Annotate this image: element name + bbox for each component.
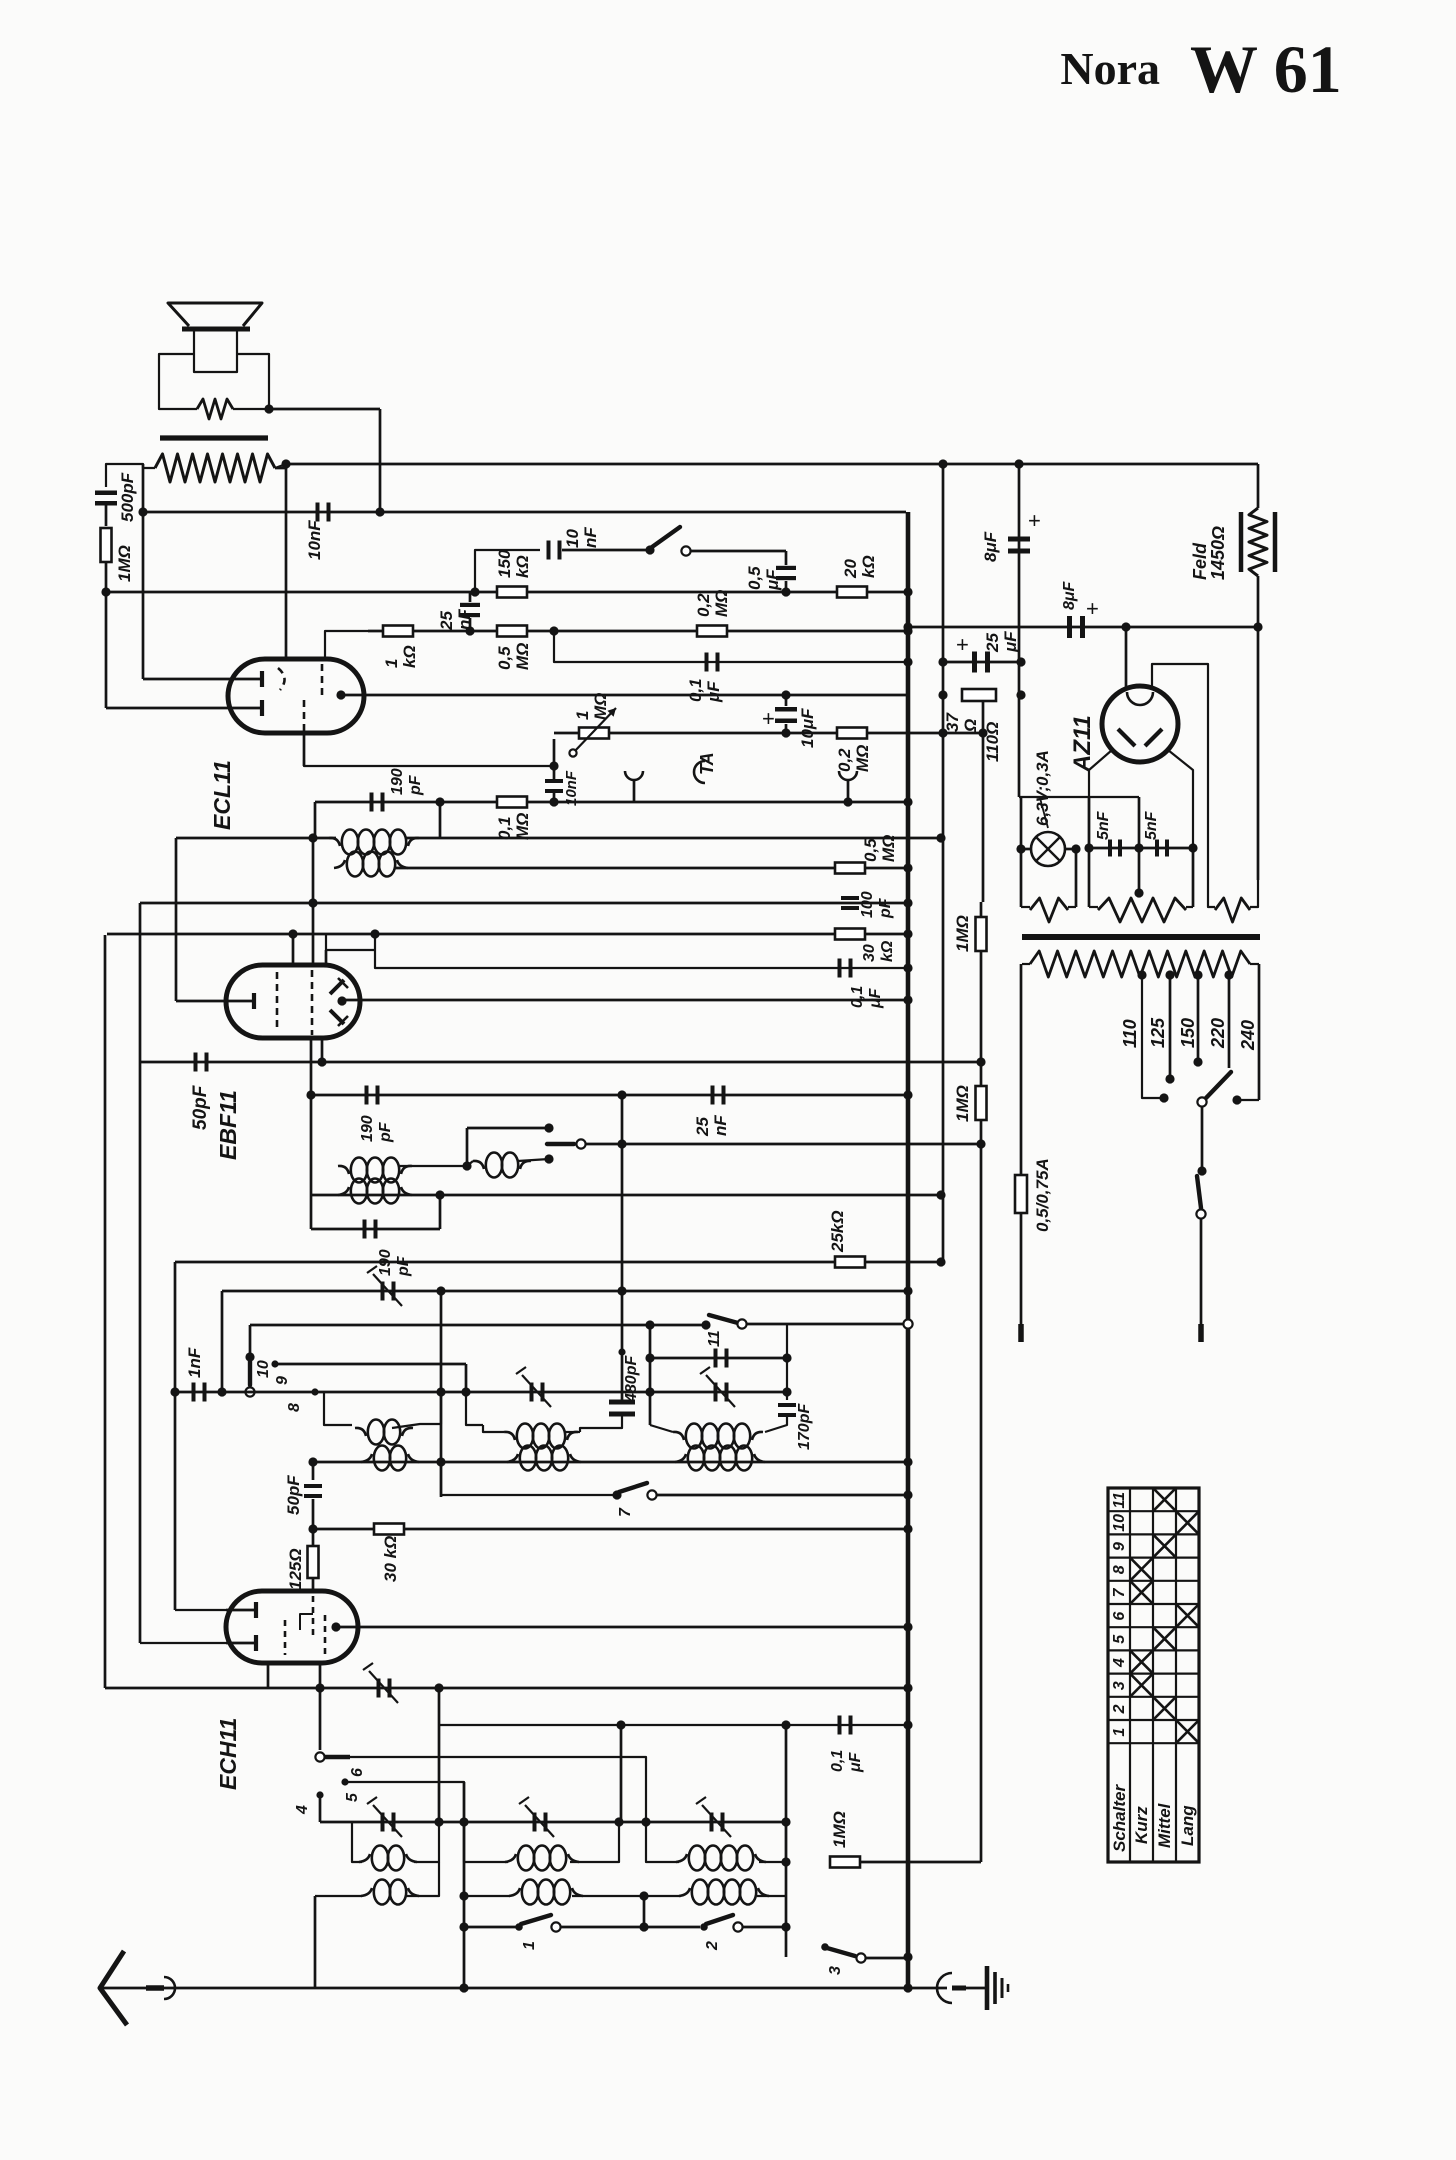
node tone switch contact (645, 545, 654, 554)
node row1927 x=786 (781, 1922, 790, 1931)
node row1462 at bus (903, 1457, 912, 1466)
wire 500pF branch top (106, 464, 108, 487)
node row695 x=943 (938, 690, 947, 699)
node row1392 x=787 (782, 1387, 791, 1396)
svg-text:Schalter: Schalter (1110, 1784, 1129, 1852)
wire lamp left rail (1020, 797, 1023, 907)
node row1144 x=622 (617, 1139, 626, 1148)
wire switch11 to bus (747, 1323, 903, 1326)
node row1957 at bus (903, 1952, 912, 1961)
wire row y=662 left part (554, 631, 908, 662)
coil band filter b (504, 1432, 515, 1440)
svg-text:AZ11: AZ11 (1069, 715, 1096, 773)
node row1529 at bus (903, 1524, 912, 1533)
wire x=175 vertical (174, 1262, 177, 1610)
capacitor 10nF pot (545, 779, 563, 783)
capacitor 25uF electrolytic (972, 652, 977, 673)
wire HT rail y=464 to rectifier (286, 463, 1258, 466)
ECH11 dashed internals (284, 1620, 287, 1655)
wire x1258 down to HV winding (1257, 627, 1260, 880)
power transformer core (1022, 934, 1260, 940)
tuning capacitor b (533, 1813, 537, 1832)
node row1688 at bus (903, 1683, 912, 1692)
node row903 at bus (903, 898, 912, 907)
svg-text:1: 1 (382, 659, 401, 668)
svg-text:MΩ: MΩ (853, 745, 872, 772)
node row838 x=313 (308, 833, 317, 842)
wire lamp right rail (1075, 849, 1078, 907)
node row1896 x=786 (785, 1895, 787, 1897)
wire ECL11 bottom stub to row 766 (304, 760, 554, 766)
wire row1195 (311, 1194, 941, 1197)
EBF11 bottom stub to 1195 (310, 1038, 313, 1195)
coil IFT1 secondary (338, 1187, 349, 1195)
wire tapped resistor down lead (982, 701, 985, 733)
contact 6 lever (325, 1755, 350, 1759)
earth socket arc (937, 1973, 952, 2003)
coil IFT2 primary (329, 838, 340, 846)
node row903 x=313 (308, 898, 317, 907)
resistor 0.1M (497, 797, 527, 808)
node row1688 x=320 (315, 1683, 324, 1692)
capacitor 10nF feedback (316, 503, 320, 522)
label 6.3V 0.3A with leader (1040, 798, 1048, 828)
trimmer row1688 (377, 1679, 381, 1698)
antenna coil a (361, 1888, 372, 1896)
svg-text:8μF: 8μF (981, 531, 1000, 562)
variable capacitor row1392 no2 (530, 1383, 534, 1402)
svg-text:W 61: W 61 (1190, 31, 1342, 107)
wire ECH11 lower lead (140, 1642, 226, 1644)
node row868 at bus (903, 863, 912, 872)
antenna coil b (509, 1888, 520, 1896)
svg-text:170pF: 170pF (796, 1403, 813, 1450)
node row1000 at bus (903, 995, 912, 1004)
wire x467 vertical (466, 1128, 469, 1166)
wire row y=934 (107, 933, 908, 936)
node row1927 x=464 (459, 1922, 468, 1931)
wire IF switch output (586, 1143, 981, 1146)
svg-text:1450Ω: 1450Ω (1208, 526, 1228, 580)
ECH11 bottom stub a (267, 1663, 270, 1688)
svg-text:Feld: Feld (1190, 542, 1210, 580)
EBF11 anode node (337, 996, 346, 1005)
wire rail x=787 (786, 1324, 788, 1400)
resistor 25k (835, 1257, 865, 1268)
svg-text:25: 25 (437, 611, 456, 631)
wire x441 vertical (440, 1291, 443, 1497)
svg-text:25: 25 (983, 633, 1002, 653)
svg-text:4: 4 (294, 1805, 311, 1815)
AZ11 plate bar right (1145, 729, 1162, 746)
coil osc row1862 c (676, 1854, 687, 1862)
svg-text:5: 5 (344, 1792, 361, 1802)
node band switch 11 contact (701, 1320, 710, 1329)
switch 3 open contact (856, 1953, 865, 1962)
node row1822 x=439 (434, 1817, 443, 1826)
svg-text:μF: μF (847, 1751, 864, 1773)
contact switch3 dot (821, 1943, 829, 1951)
wire x=1019 vertical (1018, 464, 1021, 797)
svg-text:MΩ: MΩ (712, 590, 731, 617)
contact 10 dot (245, 1352, 254, 1361)
contact 5 dot (341, 1778, 348, 1785)
node row1291 x=441 (436, 1286, 445, 1295)
svg-text:500pF: 500pF (118, 472, 137, 522)
svg-text:ECH11: ECH11 (215, 1718, 241, 1790)
svg-text:1MΩ: 1MΩ (953, 1085, 972, 1122)
wire x=786 rail (785, 1725, 788, 1957)
wire primary right lead to HT rail (275, 467, 286, 470)
wire x=222 vertical (221, 1291, 224, 1392)
node row1095 at bus (903, 1090, 912, 1099)
node row662 at bus (903, 657, 912, 666)
switch 1 lever (521, 1915, 551, 1924)
svg-text:3: 3 (1111, 1681, 1128, 1690)
svg-text:20: 20 (841, 559, 860, 579)
coil IFT2 secondary (334, 860, 345, 868)
wire primary left lead / fuse line (1020, 964, 1023, 1176)
antenna coil c (679, 1888, 690, 1896)
node row631 x=554 (549, 626, 558, 635)
node row627 x=1126 (1121, 622, 1130, 631)
node bottom row at bus (903, 1983, 912, 1992)
node row1358 x=650 (645, 1353, 654, 1362)
coil IFT1 primary (338, 1166, 349, 1174)
node row1392 x=441 (436, 1387, 445, 1396)
ECH11 bottom stub b (319, 1663, 322, 1688)
HT distribution bus (thick vertical) (906, 512, 911, 1988)
field coil Feld 1450 Ohm (1257, 464, 1260, 508)
wire switch2 to rail (743, 1926, 786, 1929)
contact 10 lever (248, 1359, 252, 1385)
wire ant coil b leads (464, 1895, 510, 1897)
lamp winding section (1021, 906, 1030, 908)
node row802 x=554 (549, 797, 558, 806)
resistor 1k (383, 626, 413, 637)
node row1725 x=786 (781, 1720, 790, 1729)
wire row y=1822 (320, 1821, 786, 1824)
node 5nF left (1084, 843, 1093, 852)
coil osc c (675, 1454, 686, 1462)
capacitor 50pF osc (304, 1484, 322, 1488)
node row592 at bus (903, 587, 912, 596)
wire contact5 row (345, 1782, 464, 1988)
node row662 x=1021 (1016, 657, 1025, 666)
svg-text:nF: nF (711, 1115, 730, 1136)
wire row y=1291 (222, 1290, 908, 1293)
svg-text:8μF: 8μF (1061, 580, 1078, 610)
node row802 x=440 (435, 797, 444, 806)
svg-text:125Ω: 125Ω (286, 1548, 305, 1590)
svg-text:μF: μF (704, 681, 723, 703)
capacitor 480pF (618, 1348, 625, 1355)
node row1392 x=466 (461, 1387, 470, 1396)
svg-text:Lang: Lang (1178, 1805, 1197, 1846)
wire feedback row y=512 (143, 511, 906, 514)
wire x=943 vertical (942, 464, 945, 1262)
wire switch7 to bus (657, 1494, 908, 1497)
node transformer secondary tap (281, 459, 290, 468)
wire 125 to tube top (312, 1578, 315, 1591)
wire ECL11 grid row y=631 (368, 630, 908, 633)
wire coil a right lead (392, 1392, 441, 1428)
ECL11 pentode grid stub solid (303, 733, 306, 766)
node row1291 x=622 (617, 1286, 626, 1295)
svg-text:37: 37 (943, 712, 962, 732)
node row1627 at bus (903, 1622, 912, 1631)
wire coil c left lead (650, 1425, 673, 1432)
node row592 left end (101, 587, 110, 596)
switch 3 lever (827, 1948, 855, 1956)
node row968 at bus (903, 963, 912, 972)
tone switch open contact (681, 546, 690, 555)
svg-text:3: 3 (827, 1966, 844, 1975)
node coil junction x=467 (462, 1161, 471, 1170)
svg-text:ECL11: ECL11 (209, 760, 235, 830)
loudspeaker diaphragm bar (182, 327, 250, 332)
capacitor 0.1uF coupling (705, 653, 709, 672)
svg-text:0,2: 0,2 (835, 748, 854, 772)
wire small coil right to contact (518, 1159, 549, 1161)
wire row y=1725 (439, 1724, 908, 1726)
svg-text:5nF: 5nF (1095, 810, 1112, 840)
node row1822 x=646 (641, 1817, 650, 1826)
node row838 x=941 (936, 833, 945, 842)
wire ECL11 lower grid lead from x=106 (105, 592, 108, 708)
svg-text:1MΩ: 1MΩ (115, 545, 134, 582)
AZ11 top lead left (1125, 627, 1128, 689)
wire tone cap to switch (562, 549, 648, 552)
node row1495 at bus (903, 1490, 912, 1499)
tap 150 (1193, 970, 1202, 979)
wire contact 9 row (275, 1363, 466, 1366)
wire left rail x=140 (139, 903, 142, 1643)
wire grid stub x=313 (312, 838, 315, 965)
pickup jack hook right (839, 771, 857, 780)
resistor 1M upper (976, 917, 987, 951)
node 5nF right (1188, 843, 1197, 852)
svg-text:+: + (1086, 596, 1099, 621)
wire ant coil a leads (315, 1895, 362, 1897)
svg-text:50pF: 50pF (284, 1475, 303, 1515)
svg-text:6,3V;0,3A: 6,3V;0,3A (1033, 750, 1052, 826)
node row631 x=470 (465, 626, 474, 635)
node row1725 x=621 (616, 1720, 625, 1729)
svg-text:1MΩ: 1MΩ (830, 1811, 849, 1848)
EBF11 dashed grid2 (311, 970, 314, 1035)
node bottom row x=315 (314, 1987, 316, 1989)
wire switch row y=1927 (464, 1926, 516, 1929)
node HT rail at x=1019 (1014, 459, 1023, 468)
antenna symbol chevron (100, 1951, 127, 2025)
fuse 0.5/0.75A (1015, 1175, 1027, 1213)
contact switch 7 dot (612, 1490, 621, 1499)
wire coil row838 to x941 (406, 837, 941, 840)
contact switch2 dot (700, 1923, 708, 1931)
wire row y=733 (554, 732, 983, 735)
coil band filter a (355, 1428, 366, 1436)
svg-text:8: 8 (286, 1403, 303, 1412)
tap 125 (1165, 970, 1174, 979)
contact 10 open circle (245, 1387, 254, 1396)
potentiometer 1M volume (579, 728, 609, 739)
loudspeaker magnet body (194, 331, 237, 372)
svg-text:480pF: 480pF (623, 1355, 640, 1403)
EBF11 top entry 2 (326, 934, 375, 950)
node row1822 x=619 (614, 1817, 623, 1826)
capacitor 25nF coupling (469, 592, 472, 602)
ECL11 grid bar lower (260, 700, 264, 716)
bus contact open circle row1325 (903, 1319, 912, 1328)
wire primary right lead 240 (1258, 964, 1261, 1100)
svg-text:0,1: 0,1 (829, 1750, 846, 1772)
switch 2 lever (706, 1915, 733, 1924)
svg-text:125: 125 (1148, 1017, 1168, 1048)
node row695 x=1021 (1016, 690, 1025, 699)
resistor 1M lower (976, 1086, 987, 1120)
resistor 1M osc (830, 1857, 860, 1868)
coil osc a (361, 1454, 372, 1462)
node row1392 x=222 (217, 1387, 226, 1396)
wire row y=592 (106, 591, 908, 594)
ECH11 grid bar lower (254, 1635, 258, 1651)
wire left rail x=105 (104, 935, 107, 1688)
ECL11 grid bar upper (260, 671, 264, 687)
earth ground symbol (985, 1966, 990, 2010)
node row1462 x=441 (436, 1457, 445, 1466)
node row1688 x=439 (434, 1683, 443, 1692)
node row627 x=1258 (1253, 622, 1262, 631)
svg-text:1MΩ: 1MΩ (953, 915, 972, 952)
node row1291 at bus (903, 1286, 912, 1295)
wire pot left lead down (553, 739, 556, 777)
svg-text:MΩ: MΩ (879, 835, 898, 862)
svg-text:MΩ: MΩ (591, 693, 610, 720)
svg-text:8: 8 (1111, 1565, 1128, 1574)
tube ECH11 envelope (226, 1591, 358, 1663)
svg-text:150: 150 (495, 549, 514, 578)
svg-text:10: 10 (563, 529, 582, 548)
wire IFT2 left rail (314, 802, 317, 838)
switch 2 open contact (733, 1922, 742, 1931)
voltage selector lever (1206, 1072, 1231, 1098)
node row1862 x=786 (781, 1857, 790, 1866)
pickup jack hook left (625, 771, 643, 780)
resistor 0.2M lower (837, 728, 867, 739)
wire x=621 rail (620, 1725, 623, 1822)
capacitor 0.5uF (785, 551, 788, 565)
HV winding section (1208, 880, 1215, 907)
svg-text:190: 190 (359, 1115, 376, 1142)
svg-text:kΩ: kΩ (879, 940, 896, 962)
svg-text:pF: pF (377, 1121, 394, 1143)
contact 4 dot (316, 1791, 323, 1798)
svg-text:1: 1 (521, 1941, 538, 1950)
coil band filter c (673, 1432, 684, 1440)
resistor 0.5M diode load (835, 863, 865, 874)
svg-text:10μF: 10μF (798, 708, 817, 748)
svg-text:μF: μF (763, 569, 782, 591)
svg-text:Ω: Ω (961, 719, 980, 733)
mains pin right (1198, 1324, 1204, 1342)
wire tone switch to 0.5uF (691, 550, 786, 553)
node row766 at pot rail (549, 761, 558, 770)
svg-text:5nF: 5nF (1143, 810, 1160, 840)
svg-text:10: 10 (1111, 1514, 1128, 1532)
svg-text:0,1: 0,1 (686, 678, 705, 702)
resistor 30k agc (835, 929, 865, 940)
svg-text:pF: pF (877, 897, 894, 919)
svg-text:50pF: 50pF (190, 1084, 211, 1130)
EBF11 dashed grid1 (276, 972, 279, 1032)
svg-text:TA: TA (697, 752, 717, 775)
svg-text:11: 11 (706, 1330, 723, 1347)
capacitor 50pF (194, 1053, 198, 1072)
wire switch3 to bus (866, 1957, 908, 1960)
wire x=981 between (980, 902, 983, 917)
capacitor 0.1uF agc (838, 959, 842, 978)
wire contact4 stub (319, 1795, 322, 1822)
EBF11 bottom stub to 1062 (321, 1038, 324, 1062)
wire bottom row y=1988 (100, 1987, 947, 1990)
AZ11 top lead right (1152, 664, 1208, 880)
wire row y=1688 (105, 1687, 908, 1690)
tube AZ11 envelope (1102, 686, 1178, 762)
node row1195 x=440 (435, 1190, 444, 1199)
EBF11 cathode bar (252, 993, 256, 1009)
node row1095 x=311 (306, 1090, 315, 1099)
power transformer primary winding (1022, 963, 1030, 965)
osc coil section rails c (646, 1822, 679, 1862)
band switch 11 lever (709, 1315, 738, 1323)
svg-text:EBF11: EBF11 (215, 1090, 241, 1160)
tube EBF11 envelope (226, 965, 360, 1038)
loudspeaker LS1 cone (168, 303, 262, 326)
node x981 row1462 (980, 1145, 982, 1147)
wire contact6 row (350, 1757, 646, 1822)
resistor 125 Ohm (312, 1529, 315, 1545)
mains pin left (1018, 1324, 1024, 1342)
ECL11 anode node (336, 690, 345, 699)
capacitor 8uF second electrolytic (1067, 616, 1072, 638)
wire speaker to output transformer primary (269, 408, 380, 411)
wire row y=1392 (175, 1391, 787, 1394)
wire row y=838 left part (176, 837, 336, 840)
svg-text:9: 9 (1111, 1542, 1128, 1551)
wire x=981 vertical upper (982, 733, 985, 902)
capacitor 8uF first electrolytic (1008, 537, 1030, 542)
node rail650 top (645, 1320, 654, 1329)
svg-text:7: 7 (1111, 1587, 1128, 1597)
svg-text:+: + (762, 706, 775, 731)
capacitor 1nF (192, 1383, 196, 1402)
switch 7 open contact (647, 1490, 656, 1499)
wire row y=627 B+ (908, 626, 1258, 629)
svg-text:110Ω: 110Ω (983, 722, 1002, 762)
node row1262 x=941 (936, 1257, 945, 1266)
node row1927 x=644 (639, 1922, 648, 1931)
svg-text:+: + (1028, 508, 1041, 533)
wire x=464 rail (463, 1782, 466, 1988)
wire coil b leads (483, 1425, 504, 1432)
svg-text:0,1: 0,1 (495, 816, 514, 840)
wire row y=1000 EBF11 anode (342, 999, 908, 1002)
osc coil section rails a (352, 1822, 362, 1862)
svg-text:240: 240 (1238, 1020, 1258, 1051)
wire x622 vertical (621, 1095, 624, 1402)
wire 190pF bottom row (311, 1228, 440, 1231)
